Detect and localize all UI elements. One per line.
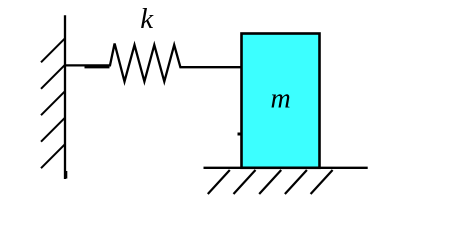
svg-text:m: m: [271, 84, 291, 115]
svg-text:k: k: [140, 3, 154, 35]
